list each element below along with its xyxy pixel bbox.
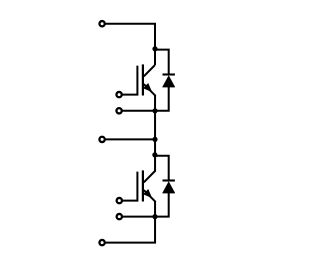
diode D2 cathode bar: [163, 179, 175, 181]
terminal N (bottom emitter terminal): [99, 240, 104, 245]
terminal E1 (upper auxiliary emitter): [116, 108, 121, 113]
wire: diode D1 top branch: [155, 50, 169, 75]
diode D2 triangle (anode): [163, 182, 175, 193]
transistor Q2 gate bar and lead: [122, 172, 138, 201]
terminal P (top collector terminal): [99, 21, 104, 26]
transistor Q1 gate bar and lead: [122, 66, 138, 95]
wire: diode D2 bottom branch: [155, 193, 169, 217]
wire: top terminal to upper bus, down to Q1 collector: [105, 24, 155, 65]
wire: auxiliary emitter E1 to bus: [122, 110, 155, 112]
node: diode D1 branch junction: [152, 46, 157, 51]
terminal G2 (lower gate): [117, 198, 122, 203]
transistor Q1 emitter diagonal: [144, 84, 156, 96]
wire: diode D2 top branch: [155, 156, 169, 181]
wire: bottom terminal to bus: [105, 242, 155, 243]
diode D1 triangle (anode): [163, 76, 175, 87]
terminal G1 (upper gate): [116, 92, 121, 97]
transistor Q2 emitter diagonal: [144, 190, 156, 202]
terminal OUT (phase output): [99, 137, 104, 142]
transistor Q2 body bar: [142, 170, 144, 201]
terminal E2 (lower auxiliary emitter): [117, 214, 122, 219]
transistor Q1 (upper IGBT) collector diagonal: [144, 65, 155, 76]
transistor Q2 emitter arrow: [144, 190, 152, 198]
node: Q1 emitter / D1 anode / E1 junction: [152, 108, 157, 113]
transistor Q1 body bar: [142, 64, 144, 95]
node: Q2 emitter / D2 anode / E2 junction: [152, 214, 157, 219]
wire: lower bus (Q2 emitter down to bottom corner): [154, 201, 156, 242]
wire: phase terminal to bus: [105, 138, 155, 140]
transistor Q1 emitter arrow: [144, 84, 152, 92]
node: diode D2 branch junction: [152, 152, 157, 157]
wire: auxiliary emitter E2 to bus: [122, 216, 155, 218]
wire: diode D1 bottom branch: [155, 87, 169, 111]
node: phase output junction: [152, 137, 157, 142]
wire: mid bus (Q1 emitter down to Q2 collector): [154, 95, 156, 171]
diode D1 cathode bar: [163, 73, 175, 75]
transistor Q2 (lower IGBT) collector diagonal: [144, 171, 155, 182]
